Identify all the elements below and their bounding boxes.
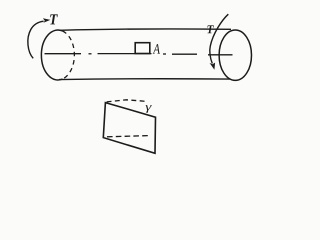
left end ellipse solid front arc: [41, 30, 62, 80]
left end ellipse hidden back arc (dashed): [63, 31, 75, 79]
original mid edge (dashed): [107, 136, 149, 137]
label A: [153, 44, 160, 54]
right torque arrow arc: [210, 14, 228, 63]
centerline dot 2: [163, 53, 166, 55]
label gamma: [146, 105, 152, 113]
label T right: [207, 25, 213, 33]
sheared element parallelogram: [103, 103, 155, 154]
centerline dash 1: [45, 53, 82, 55]
centerline dash 2: [98, 53, 152, 55]
right end ellipse: [219, 30, 251, 80]
label T left: [50, 14, 58, 24]
left torque arrowhead: [43, 18, 51, 23]
right torque arrowhead: [210, 63, 216, 70]
surface element square A: [135, 43, 150, 54]
centerline dash 4: [208, 54, 233, 56]
original top edge (dashed): [107, 100, 146, 102]
centerline dot 1: [89, 53, 92, 55]
shaft bottom outline: [59, 78, 230, 81]
centerline dash 3: [172, 53, 197, 55]
left torque arrow arc: [28, 21, 44, 58]
shaft top outline: [60, 29, 232, 30]
